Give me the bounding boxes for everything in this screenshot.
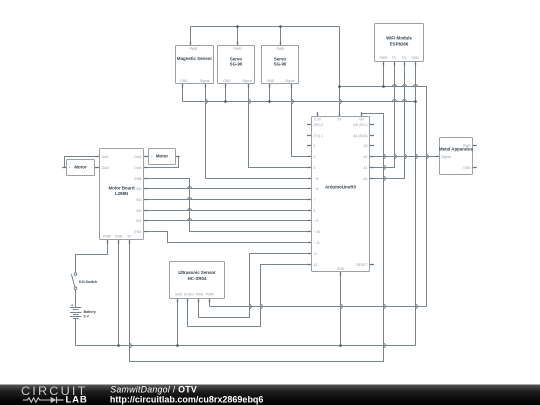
- wire ultrasonic GND down: [177, 299, 179, 346]
- svg-text:7: 7: [314, 198, 316, 202]
- wire WiFi GND down to ground bus: [415, 62, 417, 346]
- svg-text:Magnetic Sensor: Magnetic Sensor: [177, 56, 212, 61]
- svg-text:L298N: L298N: [115, 191, 128, 196]
- svg-text:~ 5: ~ 5: [314, 177, 319, 181]
- svg-text:SG-90: SG-90: [230, 62, 243, 67]
- svg-text:8: 8: [314, 209, 316, 213]
- svg-text:Out2: Out2: [102, 166, 109, 170]
- svg-text:Kill Switch: Kill Switch: [79, 280, 97, 284]
- svg-text:A5 (SCL): A5 (SCL): [354, 123, 368, 127]
- svg-text:ArduinoUnoR3: ArduinoUnoR3: [325, 184, 357, 189]
- wire ENB to pin 10: [144, 179, 312, 232]
- wire stub metal apparatus GND: [473, 167, 476, 169]
- svg-text:~ 10: ~ 10: [314, 230, 321, 234]
- Arduino Uno R3: [312, 117, 370, 272]
- svg-text:GND: GND: [115, 235, 123, 239]
- svg-text:2: 2: [314, 144, 316, 148]
- svg-text:A0: A0: [363, 177, 367, 181]
- svg-text:~ 11: ~ 11: [314, 241, 321, 245]
- wire 5V rail to ultrasonic PWR: [210, 87, 427, 307]
- wire ground bus bottom: [76, 345, 416, 347]
- wire magnetic sensor GND: [182, 84, 184, 102]
- wire WiFi TX to A1: [370, 62, 395, 168]
- svg-text:~ 9: ~ 9: [314, 219, 319, 223]
- svg-text:GND: GND: [463, 166, 471, 170]
- svg-text:Motor Board: Motor Board: [108, 185, 134, 190]
- wire A2 to metal apparatus signal: [370, 156, 440, 158]
- svg-text:Ultrasonic Sensor: Ultrasonic Sensor: [178, 270, 216, 275]
- svg-text:HC-SR04: HC-SR04: [188, 276, 207, 281]
- svg-text:5V: 5V: [127, 235, 132, 239]
- wire pin 12 to TRIG: [199, 254, 312, 318]
- svg-text:A4 (SDA): A4 (SDA): [353, 134, 367, 138]
- svg-text:-: -: [172, 155, 173, 159]
- svg-text:Motor: Motor: [156, 153, 168, 158]
- svg-text:ECHO: ECHO: [184, 293, 194, 297]
- motor M1: [67, 160, 95, 176]
- svg-text:Battery: Battery: [84, 310, 96, 314]
- wire magnetic sensor PWR: [190, 27, 192, 46]
- wire IN3 to pin 7: [144, 199, 312, 201]
- wire servo2 PWR: [280, 27, 282, 46]
- svg-text:9 V: 9 V: [84, 315, 90, 319]
- svg-text:LAB: LAB: [66, 395, 88, 405]
- svg-text:Motor: Motor: [74, 164, 86, 169]
- svg-text:-: -: [91, 166, 92, 170]
- svg-text:http://circuitlab.com/cu8rx286: http://circuitlab.com/cu8rx2869ebq6: [110, 395, 264, 405]
- wire servo2 signal to pin 3: [292, 84, 312, 157]
- footer title text: [110, 385, 264, 405]
- svg-text:ENB: ENB: [135, 177, 143, 181]
- svg-text:WiFi Module: WiFi Module: [386, 36, 412, 41]
- svg-text:Signal: Signal: [242, 79, 252, 83]
- wire motor board PWR to kill switch: [76, 240, 108, 273]
- ultrasonic sensor HC-SR04: [170, 262, 225, 299]
- wire Out1 to motor M1 plus: [65, 157, 100, 168]
- wire ultrasonic TRIG pin: [198, 299, 200, 318]
- svg-text:A2: A2: [363, 155, 367, 159]
- svg-text:(RX) 0: (RX) 0: [314, 123, 324, 127]
- wire stub A5: [370, 124, 375, 126]
- wire motor M1 minus to Out2: [95, 167, 100, 169]
- svg-text:PWR: PWR: [103, 235, 111, 239]
- svg-text:IN4: IN4: [136, 187, 141, 191]
- wire stub pin 1: [307, 135, 312, 137]
- svg-text:PWR: PWR: [234, 47, 242, 51]
- svg-text:A1: A1: [363, 166, 367, 170]
- wire IN2 to pin 8: [144, 210, 312, 212]
- svg-text:~ 6: ~ 6: [314, 187, 319, 191]
- svg-text:PWR: PWR: [277, 47, 285, 51]
- wire pin 13 to ECHO: [188, 265, 312, 327]
- svg-text:12: 12: [314, 252, 318, 256]
- wire Arduino GND down: [340, 272, 342, 346]
- svg-text:13: 13: [314, 263, 318, 267]
- wire stub A4: [370, 135, 375, 137]
- wire battery minus down: [75, 319, 77, 346]
- svg-text:RX: RX: [402, 56, 407, 60]
- svg-text:RESET: RESET: [356, 263, 367, 267]
- svg-text:PWR: PWR: [190, 47, 198, 51]
- motor M2: [149, 149, 176, 165]
- svg-text:5V: 5V: [337, 117, 342, 121]
- kill switch SW1: [71, 273, 97, 290]
- svg-text:Vin: Vin: [359, 117, 364, 121]
- wire servo1 PWR: [237, 27, 239, 46]
- svg-text:GND: GND: [180, 79, 188, 83]
- svg-text:3.3V: 3.3V: [314, 117, 322, 121]
- CircuitLab logo: [21, 384, 88, 405]
- svg-text:PWR: PWR: [463, 144, 471, 148]
- svg-text:+: +: [151, 155, 153, 159]
- WiFi module ESP8266: [375, 24, 424, 62]
- wire 5V bus to Arduino 5V pin: [339, 27, 341, 117]
- wire stub pin 2: [307, 145, 312, 147]
- pin stubs: [62, 41, 476, 302]
- svg-text:GND: GND: [411, 56, 419, 60]
- servo SG-90 module 2: [262, 46, 299, 84]
- wire Out3 to motor M2 plus: [144, 156, 149, 158]
- svg-text:4: 4: [314, 166, 316, 170]
- wire WiFi PWR to 5V rail: [383, 62, 385, 87]
- wire motor M2 minus to Out4: [144, 157, 179, 168]
- svg-text:IN1: IN1: [136, 219, 141, 223]
- wire hop marks: [130, 85, 429, 348]
- svg-text:GND: GND: [267, 79, 275, 83]
- wire servo2 GND: [269, 84, 271, 102]
- wire A1 row: [370, 167, 395, 169]
- svg-text:PWR: PWR: [206, 293, 214, 297]
- svg-text:SG-90: SG-90: [274, 62, 287, 67]
- wire stub 3.3V: [317, 112, 319, 117]
- wire stub RESET: [370, 264, 375, 266]
- wire Arduino Vin from motor board 5V: [130, 114, 384, 362]
- svg-text:TRIG: TRIG: [195, 293, 203, 297]
- wire stub pin 0: [307, 124, 312, 126]
- wire A0 row: [370, 178, 405, 180]
- wire WiFi RX to A0: [370, 62, 405, 179]
- svg-text:ENA: ENA: [135, 230, 143, 234]
- wire ultrasonic PWR pin: [209, 299, 211, 307]
- svg-text:GND: GND: [175, 293, 183, 297]
- svg-text:Out4: Out4: [134, 166, 141, 170]
- svg-text:PWR: PWR: [380, 56, 388, 60]
- wire servo1 GND: [225, 84, 227, 102]
- svg-text:GND: GND: [337, 267, 345, 271]
- svg-text:TX: TX: [392, 56, 397, 60]
- wire magnetic sensor signal to pin 5: [206, 84, 312, 179]
- svg-text:Signal: Signal: [441, 155, 451, 159]
- svg-text:SamwitDangol / OTV: SamwitDangol / OTV: [110, 385, 197, 395]
- svg-text:(TX) 1: (TX) 1: [314, 134, 324, 138]
- wire ultrasonic ECHO pin: [187, 299, 189, 327]
- wire ENA to pin 11: [144, 232, 312, 243]
- wire IN1 to pin 9: [144, 220, 312, 222]
- battery 9V: [70, 304, 96, 319]
- svg-text:A3: A3: [363, 144, 367, 148]
- svg-text:Out1: Out1: [102, 155, 109, 159]
- wire IN4 to pin 6: [144, 188, 312, 190]
- svg-text:GND: GND: [223, 79, 231, 83]
- motor board L298N: [100, 149, 144, 240]
- wire stub A3: [370, 145, 375, 147]
- svg-text:Signal: Signal: [285, 79, 295, 83]
- metal apparatus: [439, 138, 474, 175]
- wire servo1 signal to pin 4: [249, 84, 312, 168]
- svg-text:ESP8266: ESP8266: [390, 41, 409, 46]
- svg-text:3: 3: [314, 155, 316, 159]
- svg-text:Signal: Signal: [200, 79, 210, 83]
- wire motor board GND down: [118, 240, 120, 346]
- wire junctions: [117, 25, 417, 347]
- magnetic sensor module: [176, 46, 214, 84]
- svg-text:Out3: Out3: [134, 155, 141, 159]
- wire stub metal apparatus PWR: [473, 145, 476, 147]
- wire kill switch to battery: [75, 290, 77, 308]
- svg-text:IN3: IN3: [136, 198, 141, 202]
- servo SG-90 module 1: [218, 46, 255, 84]
- svg-text:+: +: [69, 166, 71, 170]
- svg-text:IN2: IN2: [136, 209, 141, 213]
- wire PWR bus top: [191, 26, 340, 28]
- wire GND bus of sensors: [183, 101, 416, 103]
